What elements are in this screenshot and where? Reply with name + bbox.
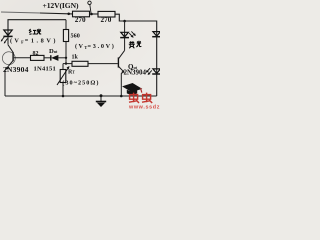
svg-text:1N4151: 1N4151 bbox=[34, 65, 56, 72]
diode D2 1N4151 bbox=[51, 55, 59, 61]
wire: Q2 emitter to bottom rail bbox=[121, 72, 124, 96]
node: Q2 emitter dot bbox=[120, 95, 123, 98]
node: diode junction dot bbox=[65, 57, 67, 59]
wire: 1k to Q2 base bbox=[88, 63, 118, 65]
LED D3 yellow bbox=[120, 31, 136, 37]
wire: second rail (LED1/R560 supply) bbox=[8, 20, 66, 30]
watermark text 虫虫 bbox=[129, 93, 152, 103]
LED D1 red bbox=[1, 30, 13, 44]
node: dot at 1k line bbox=[65, 62, 67, 64]
resistor R2 270 bbox=[98, 11, 115, 23]
node: +12V junction dot bbox=[90, 13, 93, 16]
label: 黄光 (yellow light) bbox=[129, 41, 142, 48]
svg-text:560: 560 bbox=[71, 32, 80, 39]
wire: R3 to D2 bbox=[44, 57, 51, 59]
LED D4 (top right, clipped) bbox=[152, 32, 161, 37]
wire: LED1 cathode down bbox=[7, 36, 9, 45]
wire: rail right of R2, corner down to y21, right to x156.7, down bbox=[115, 14, 157, 31]
ground bbox=[96, 96, 106, 107]
resistor R5 1k bbox=[72, 54, 89, 66]
svg-text:+12V(IGN): +12V(IGN) bbox=[43, 1, 79, 10]
svg-text:2N3904: 2N3904 bbox=[3, 65, 29, 74]
svg-text:1k: 1k bbox=[72, 54, 79, 60]
terminal: +12V(IGN) input circle bbox=[88, 1, 91, 4]
node: junction dot for yellow LED drop bbox=[123, 20, 126, 23]
svg-text:2N3904: 2N3904 bbox=[124, 69, 147, 77]
wire: Q1 emitter down to bottom rail bbox=[5, 69, 6, 96]
wire: horizontal to RT corner and 1k bbox=[63, 63, 72, 65]
node: RT bottom dot bbox=[62, 95, 65, 98]
svg-text:Dnt: Dnt bbox=[49, 48, 58, 55]
node: junction dot left of R1 bbox=[67, 13, 70, 16]
resistor R4 560 bbox=[63, 20, 79, 42]
wire: bottom rail bbox=[5, 95, 157, 97]
wire: right column between LEDs bbox=[156, 37, 158, 69]
thermistor RT variable bbox=[57, 64, 70, 96]
wire: terminal to rail bbox=[90, 5, 91, 14]
wire: R4 bottom to node bbox=[65, 42, 67, 64]
wire: yellow LED drop from rail bbox=[124, 21, 126, 32]
svg-text:(30~250Ω): (30~250Ω) bbox=[62, 79, 99, 86]
svg-text:82: 82 bbox=[33, 51, 39, 57]
svg-text:(VF=1.8V): (VF=1.8V) bbox=[10, 37, 58, 44]
node: ground dot bbox=[100, 94, 103, 97]
wire: Q2 collector up to LED2 bbox=[124, 38, 126, 51]
wire: rail between R1 and R2 bbox=[90, 13, 99, 15]
resistor R3 82 bbox=[31, 51, 45, 61]
wire: +12V top rail left segment bbox=[1, 12, 40, 13]
wire: D2 to node V1 bbox=[58, 57, 66, 59]
svg-text:270: 270 bbox=[101, 16, 112, 24]
label: 红光 (red light) bbox=[29, 29, 41, 35]
wire: bottom right column to rail bbox=[156, 74, 158, 96]
LED D5 (bottom right, clipped) bbox=[146, 68, 161, 75]
svg-text:(VT=3.0V): (VT=3.0V) bbox=[75, 43, 116, 50]
resistor R1 270 bbox=[73, 11, 90, 24]
wire: Q1 base to R3 bbox=[14, 57, 31, 59]
transistor Q1 2N3904 bbox=[2, 45, 15, 70]
svg-text:www.ssdz: www.ssdz bbox=[128, 105, 160, 110]
watermark logo cap bbox=[122, 82, 143, 95]
transistor Q2 2N3904 bbox=[118, 50, 124, 72]
svg-text:270: 270 bbox=[75, 16, 86, 24]
